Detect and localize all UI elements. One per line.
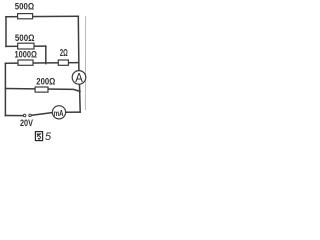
svg-text:500Ω: 500Ω <box>15 33 35 44</box>
svg-text:2Ω: 2Ω <box>60 48 68 59</box>
resistor 2ohm box <box>58 60 68 65</box>
wire battery to mA <box>32 113 53 116</box>
caption hanzi tu (figure) drawn manually <box>35 132 42 141</box>
resistor 200ohm box <box>35 87 48 92</box>
scan artifact faint right border line <box>84 16 86 110</box>
battery terminal circle left <box>23 114 26 117</box>
svg-text:5: 5 <box>45 131 52 143</box>
wire right vertical upper <box>77 16 80 70</box>
wire mA to right vertical <box>66 111 81 113</box>
ammeter A circle <box>72 71 86 85</box>
background <box>0 0 90 146</box>
svg-text:20V: 20V <box>20 118 33 128</box>
resistor R2 500ohm box <box>18 43 34 49</box>
svg-text:A: A <box>75 71 83 85</box>
wire row 2 <box>6 45 46 47</box>
resistor R1 500ohm box <box>18 14 33 19</box>
wire 200 ohm row <box>5 89 80 92</box>
wire left vertical upper <box>5 17 7 47</box>
wire row 3 <box>5 62 78 65</box>
svg-text:1000Ω: 1000Ω <box>15 50 38 61</box>
svg-text:mA: mA <box>54 109 64 118</box>
svg-text:500Ω: 500Ω <box>15 1 35 12</box>
wire right connector R2-R3 <box>45 46 47 64</box>
resistor R3 1000ohm box <box>18 60 33 65</box>
wire below ammeter <box>79 84 82 112</box>
wire left vertical lower <box>4 63 6 115</box>
svg-text:200Ω: 200Ω <box>36 76 55 87</box>
wire bottom left <box>5 115 23 117</box>
battery terminal circle right <box>29 114 32 117</box>
milliammeter mA circle <box>52 106 65 119</box>
wire top row <box>6 15 78 18</box>
